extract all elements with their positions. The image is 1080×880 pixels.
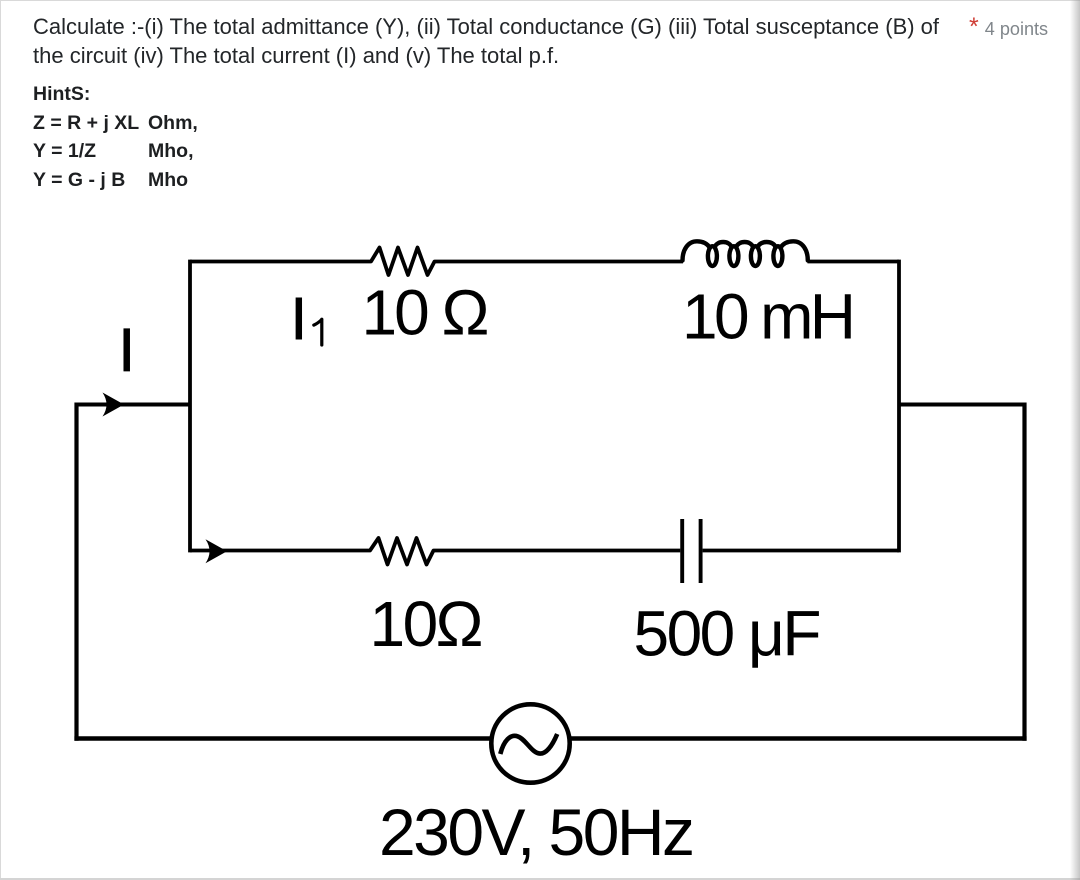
wire: top branch right segment: [808, 260, 900, 264]
arrow on bottom branch wire: [206, 539, 228, 563]
wire: bottom wire: [74, 736, 1026, 740]
page edge borders: [0, 0, 1080, 1]
question text: [33, 12, 939, 70]
wire: inner left vertical: [188, 260, 192, 553]
arrow on middle left wire (current I): [103, 393, 125, 417]
AC source sine wave: [500, 734, 557, 754]
wire: bottom branch left segment + resistor R2 zigzag 10 ohm: [190, 538, 680, 565]
inductor L1 coil loops: [708, 246, 783, 266]
svg-text:I: I: [291, 286, 307, 352]
capacitor C1 left plate: [680, 519, 684, 583]
svg-text:500 μF: 500 μF: [634, 597, 822, 669]
wire: bottom branch right segment: [703, 549, 899, 553]
wire: top branch left segment + resistor R1 zigzag 10 ohm: [190, 248, 683, 276]
svg-text:I: I: [118, 316, 135, 384]
inductor L1 10 mH coil arches: [683, 241, 808, 260]
points label: [969, 16, 1048, 45]
svg-text:230V, 50Hz: 230V, 50Hz: [379, 795, 695, 869]
wire: middle right tap: [899, 403, 1025, 407]
AC source V1 circle: [491, 704, 569, 782]
wire: outer left vertical: [74, 403, 78, 741]
wire: inner right vertical: [897, 260, 901, 553]
svg-text:10Ω: 10Ω: [370, 588, 484, 660]
wire: middle left tap: [77, 403, 191, 407]
wire: outer right vertical: [1022, 403, 1026, 741]
svg-text:10 mH: 10 mH: [682, 280, 856, 352]
capacitor C1 right plate: [699, 519, 703, 583]
svg-text:10 Ω: 10 Ω: [362, 277, 490, 349]
hints block: [33, 80, 139, 195]
